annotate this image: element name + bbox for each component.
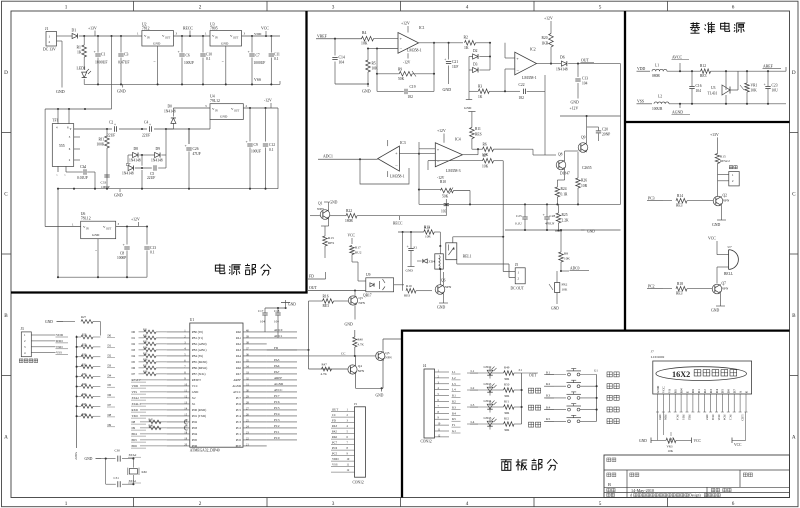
svg-text:D1: D1 [697,389,701,393]
svg-text:NPN: NPN [359,301,366,305]
svg-text:1: 1 [24,333,26,337]
svg-text:OUT: OUT [332,408,338,412]
svg-text:ADC0: ADC0 [274,328,283,332]
svg-text:0.1U: 0.1U [515,222,522,226]
svg-text:NPN: NPN [358,369,365,373]
svg-text:2: 2 [49,40,51,44]
svg-text:3: 3 [332,501,335,507]
svg-text:GND: GND [92,233,100,237]
svg-text:D6: D6 [108,393,112,397]
svg-text:RS: RS [674,389,678,393]
svg-text:C2: C2 [109,121,113,125]
svg-text:D9: D9 [132,426,136,430]
svg-text:CC: CC [341,352,346,356]
svg-text:PB2: PB2 [687,415,691,421]
svg-text:GND: GND [345,323,353,327]
svg-text:D7: D7 [126,163,131,167]
svg-text:K1: K1 [452,394,456,398]
svg-text:1N4148: 1N4148 [556,68,568,72]
svg-text:TXD: TXD [132,414,139,418]
svg-text:GND: GND [153,42,161,46]
svg-text:IN: IN [215,37,218,40]
svg-text:VCC: VCC [192,384,198,388]
svg-text:_: _ [436,157,440,162]
svg-text:104: 104 [582,82,588,86]
svg-text:L2: L2 [471,386,475,390]
svg-text:GND: GND [56,89,65,94]
svg-text:RJ1: RJ1 [99,138,105,142]
svg-text:R42: R42 [82,393,87,396]
svg-text:R44: R44 [82,413,87,416]
svg-text:0.1R: 0.1R [561,193,568,197]
svg-text:4: 4 [466,501,469,507]
svg-text:PC1: PC1 [236,432,242,436]
svg-text:VDD: VDD [637,67,645,71]
svg-text:R8: R8 [564,252,568,256]
svg-text:PC6: PC6 [332,446,338,450]
svg-text:RE3: RE3 [676,204,683,208]
svg-text:D5: D5 [132,360,136,364]
svg-text:100K: 100K [97,143,105,147]
svg-text:PC1: PC1 [729,415,733,421]
svg-text:1000P: 1000P [117,256,126,260]
svg-text:104: 104 [339,61,345,65]
svg-text:Q7: Q7 [722,282,727,286]
svg-text:C3: C3 [124,53,129,57]
svg-text:GND: GND [464,106,472,110]
svg-text:-12V: -12V [264,99,272,103]
svg-text:OUT: OUT [529,374,537,378]
svg-text:100UF: 100UF [184,61,194,65]
svg-text:VDD: VDD [132,384,139,388]
svg-text:30R: 30R [504,394,510,398]
svg-text:PD3: PD3 [192,426,198,430]
svg-text:D3: D3 [709,389,713,393]
svg-text:78L12: 78L12 [81,217,91,221]
svg-text:PC4: PC4 [236,414,242,418]
svg-text:U7: U7 [728,245,732,249]
svg-text:PD4: PD4 [723,415,727,421]
svg-text:D2: D2 [108,354,112,358]
svg-text:VCC: VCC [662,385,666,393]
svg-text:F1: F1 [452,423,456,427]
svg-text:RES: RES [475,133,482,137]
svg-text:R20: R20 [542,36,548,40]
svg-text:K5: K5 [452,417,456,421]
svg-text:L3: L3 [452,382,456,386]
svg-text:C30: C30 [115,449,121,453]
svg-text:PC2: PC2 [274,424,280,428]
svg-text:REL1: REL1 [463,255,472,259]
svg-text:+: + [407,245,409,249]
svg-text:~: ~ [95,249,97,253]
svg-text:Q9: Q9 [581,136,586,140]
svg-text:K4: K4 [452,411,456,415]
svg-text:LED1: LED1 [77,67,86,71]
svg-text:4.7K: 4.7K [358,343,365,347]
svg-text:PC5: PC5 [274,406,280,410]
svg-text:D4: D4 [715,389,719,393]
svg-text:+: + [149,122,151,126]
svg-text:G1: G1 [594,369,598,373]
svg-text:NPN: NPN [445,285,452,289]
svg-text:LED: LED [740,415,744,422]
svg-text:1: 1 [518,271,520,275]
svg-text:J4: J4 [423,364,426,368]
svg-text:PD1 (TXD): PD1 (TXD) [192,414,206,418]
svg-text:GND: GND [376,394,384,398]
svg-text:PD5: PD5 [192,438,198,442]
svg-text:R9: R9 [398,68,402,72]
svg-text:PB3 (AIN1): PB3 (AIN1) [192,348,207,352]
svg-text:10R: 10R [581,184,588,188]
svg-text:K4: K4 [546,405,550,409]
svg-text:TL431: TL431 [708,92,718,96]
svg-text:PC7: PC7 [332,441,338,445]
svg-text:C1: C1 [101,53,106,57]
svg-text:470UF: 470UF [545,222,555,226]
svg-text:1: 1 [65,5,68,11]
svg-text:Q5: Q5 [385,351,389,355]
svg-text:LED2: LED2 [484,365,492,369]
svg-text:IC3: IC3 [400,141,406,145]
svg-text:+12V: +12V [131,218,140,222]
svg-text:VDD: VDD [254,32,262,36]
svg-text:GND: GND [330,201,338,205]
svg-text:C9: C9 [254,143,258,147]
svg-text:AVCC: AVCC [233,390,241,394]
svg-text:FR2: FR2 [562,283,568,287]
svg-text:1N4148: 1N4148 [164,110,176,114]
svg-text:D8: D8 [108,413,112,417]
svg-text:~: ~ [222,60,224,64]
svg-text:Q2: Q2 [723,194,728,198]
svg-text:R27: R27 [81,315,87,319]
svg-text:PC7: PC7 [274,394,280,398]
svg-text:IC2: IC2 [530,48,536,52]
svg-text:PD0 (RXD): PD0 (RXD) [192,408,206,412]
svg-text:1: 1 [137,32,139,36]
svg-text:C11: C11 [274,53,280,57]
svg-text:20NP: 20NP [602,133,610,137]
svg-text:Q8: Q8 [558,153,563,157]
svg-text:J7: J7 [651,350,654,354]
svg-text:PA3: PA3 [236,348,242,352]
svg-text:RES2.2: RES2.2 [720,159,730,163]
svg-text:OUT: OUT [233,37,239,40]
svg-text:7: 7 [347,442,349,445]
svg-text:D6: D6 [727,389,731,393]
svg-text:DC 13V: DC 13V [43,48,56,52]
svg-text:PA6: PA6 [236,366,242,370]
svg-text:C6: C6 [186,54,190,58]
svg-text:DC OUT: DC OUT [511,287,525,291]
svg-text:D1: D1 [108,344,112,348]
svg-text:+: + [764,83,766,87]
svg-text:Q1: Q1 [318,202,323,206]
svg-text:R28: R28 [82,334,87,337]
svg-text:LM358-1: LM358-1 [407,49,422,53]
svg-text:RU2: RU2 [355,251,362,255]
svg-text:~: ~ [56,173,58,177]
svg-text:PD2: PD2 [192,420,198,424]
svg-text:PA2: PA2 [236,342,242,346]
svg-text:Q3: Q3 [359,296,363,300]
svg-text:GND: GND [443,87,452,92]
svg-text:RE3: RE3 [323,304,330,308]
svg-text:R5: R5 [372,62,376,66]
svg-text:AGND: AGND [672,111,683,115]
svg-text:G1: G1 [452,429,456,433]
svg-text:XTA2: XTA2 [132,396,140,400]
svg-text:GND: GND [639,439,647,443]
svg-text:R11: R11 [475,127,481,131]
svg-text:d: d [630,494,632,498]
svg-text:GND: GND [571,101,579,105]
svg-text:1N4148: 1N4148 [129,159,141,163]
svg-text:0.1: 0.1 [150,251,155,255]
svg-text:GND: GND [711,309,719,313]
svg-text:10K: 10K [482,165,489,169]
svg-text:RES: RES [328,241,334,245]
svg-text:VSS: VSS [132,390,138,394]
svg-text:L4: L4 [452,388,456,392]
svg-text:D8: D8 [134,147,139,151]
svg-text:D7: D7 [733,389,737,393]
svg-text:J5: J5 [515,263,518,267]
svg-text:GND: GND [220,115,228,119]
svg-text:1: 1 [732,173,734,177]
svg-text:R6: R6 [483,143,487,147]
svg-text:R14: R14 [677,194,683,198]
svg-text:NPN: NPN [723,199,730,203]
svg-text:4: 4 [466,5,469,11]
svg-text:R26: R26 [581,179,587,183]
svg-text:PD4: PD4 [132,432,138,436]
svg-text:GND: GND [551,307,559,311]
svg-text:AREF: AREF [274,376,282,380]
svg-text:C23: C23 [772,84,778,88]
svg-text:R29: R29 [82,344,87,347]
svg-text:C25: C25 [516,214,522,218]
svg-text:1000P: 1000P [101,185,110,189]
svg-text:C2655: C2655 [582,166,592,170]
svg-text:2: 2 [518,277,520,281]
svg-text:GND: GND [114,193,123,198]
svg-text:R17: R17 [355,246,361,250]
svg-text:R31: R31 [143,329,148,332]
svg-text:VCC: VCC [348,234,356,238]
svg-text:K3: K3 [546,394,550,398]
svg-text:D: D [792,70,796,76]
svg-text:RE3: RE3 [676,292,683,296]
svg-text:K2: K2 [452,400,456,404]
svg-text:X2: X2 [192,396,196,400]
svg-text:2: 2 [199,501,202,507]
svg-text:2: 2 [199,5,202,11]
svg-text:L2: L2 [452,376,456,380]
svg-text:PB6: PB6 [664,415,668,421]
svg-text:3: 3 [24,345,26,349]
svg-text:7805: 7805 [210,27,218,31]
svg-text:2.2K: 2.2K [562,219,569,223]
svg-text:LED4: LED4 [484,399,492,403]
svg-text:VSS: VSS [56,351,62,355]
svg-text:R37: R37 [143,365,148,368]
svg-text:PC0: PC0 [236,438,242,442]
svg-text:C26: C26 [193,147,199,151]
svg-text:R30: R30 [82,353,87,356]
svg-text:AVCC: AVCC [274,388,282,392]
svg-text:104: 104 [260,320,265,324]
svg-text:R4: R4 [362,31,367,35]
svg-text:D3: D3 [132,348,136,352]
svg-text:+: + [114,122,116,126]
svg-text:AGND: AGND [232,384,241,388]
svg-text:V0: V0 [668,389,672,393]
svg-text:PC6: PC6 [236,402,242,406]
svg-text:C31: C31 [114,476,120,480]
svg-text:B: B [608,482,611,487]
svg-text:VDD: VDD [332,457,339,461]
svg-text:0.47UF: 0.47UF [118,61,130,65]
svg-text:D1: D1 [132,336,136,340]
svg-text:1K: 1K [464,46,469,50]
svg-text:E1: E1 [414,246,418,250]
svg-text:22UF: 22UF [142,134,150,138]
svg-text:PC0: PC0 [274,436,280,440]
svg-text:PA5: PA5 [236,360,242,364]
svg-text:LM358-3: LM358-3 [446,169,461,173]
svg-text:+12V: +12V [544,17,553,21]
svg-text:+12V: +12V [570,107,579,111]
svg-text:IC4: IC4 [455,138,461,142]
svg-text:+: + [516,56,519,61]
svg-text:K1: K1 [546,370,550,374]
svg-text:PD6: PD6 [132,444,138,448]
svg-text:RJ1: RJ1 [504,399,509,403]
svg-text:IN: IN [147,37,150,40]
svg-text:1N4148: 1N4148 [122,172,134,176]
svg-text:R22: R22 [346,209,352,213]
svg-text:PB1 (T1): PB1 (T1) [192,336,203,340]
svg-text:OUT: OUT [106,228,112,231]
svg-text:C: C [4,192,8,198]
svg-text:GND: GND [192,390,199,394]
svg-text:PB4 (SS): PB4 (SS) [192,354,203,358]
svg-text:1UF: 1UF [452,65,458,69]
svg-text:PA7: PA7 [274,370,280,374]
svg-text:GND: GND [437,306,445,310]
svg-text:C13: C13 [150,246,156,250]
svg-text:1800UF: 1800UF [95,61,107,65]
svg-text:RE3: RE3 [700,74,707,78]
svg-text:3: 3 [205,104,207,108]
svg-text:OUT: OUT [309,286,317,290]
svg-text:_: _ [399,45,403,50]
svg-text:PD3: PD3 [717,415,721,421]
svg-text:10K: 10K [562,288,568,292]
svg-text:+: + [437,147,440,152]
svg-text:A: A [792,435,796,441]
svg-text:PA3: PA3 [274,358,280,362]
svg-text:22UF: 22UF [107,134,115,138]
svg-text:4: 4 [24,351,26,355]
svg-text:182: 182 [519,96,525,100]
svg-text:VSS: VSS [332,463,338,467]
svg-text:VCC: VCC [261,27,269,31]
svg-text:C22: C22 [519,83,525,87]
svg-text:PB1: PB1 [681,415,685,421]
svg-text:PC4: PC4 [274,412,280,416]
svg-text:AREF: AREF [233,378,241,382]
svg-text:16X2: 16X2 [672,370,690,379]
svg-text:L2: L2 [658,95,662,99]
svg-text:2: 2 [732,179,734,183]
svg-text:PC7: PC7 [236,396,242,400]
svg-text:IC1: IC1 [419,26,425,30]
svg-text:+12V: +12V [401,22,410,26]
svg-text:VDD: VDD [56,333,64,337]
svg-text:+13V: +13V [88,27,97,31]
svg-text:U1: U1 [190,318,195,322]
svg-text:ADC1: ADC1 [323,155,333,159]
svg-text:A: A [4,435,8,441]
svg-text:2: 2 [347,414,349,417]
svg-text:10U: 10U [772,89,779,93]
svg-text:J1: J1 [45,27,48,31]
svg-text:FD: FD [274,346,279,350]
svg-text:PB7: PB7 [705,415,709,421]
svg-text:VR3: VR3 [667,445,673,449]
svg-text:C28: C28 [550,214,556,218]
svg-text:4.7K: 4.7K [321,372,328,376]
svg-text:GND: GND [221,42,229,46]
svg-text:C19: C19 [410,85,416,89]
svg-text:VSS: VSS [254,78,261,82]
svg-text:R49: R49 [504,365,510,369]
svg-text:080R: 080R [652,74,660,78]
svg-text:R46: R46 [149,425,154,428]
svg-text:PD4: PD4 [192,432,198,436]
svg-text:PC6: PC6 [274,400,280,404]
svg-text:RES: RES [404,294,410,298]
svg-text:R32: R32 [82,373,87,376]
svg-text:0.01UF: 0.01UF [77,176,88,180]
svg-text:12: 12 [347,469,350,472]
svg-text:C: C [792,192,796,198]
svg-text:D4: D4 [132,354,136,358]
svg-text:RECC: RECC [183,27,193,31]
svg-text:OUT: OUT [581,59,589,63]
svg-text:ZD4: ZD4 [429,260,436,264]
svg-text:D7: D7 [108,403,112,407]
svg-text:R33: R33 [143,341,148,344]
svg-text:1: 1 [205,32,207,36]
svg-text:14-May-2010: 14-May-2010 [631,488,654,493]
svg-text:3: 3 [69,135,71,139]
svg-text:-12V: -12V [403,61,411,65]
svg-text:XTA1: XTA1 [129,479,137,483]
svg-text:10K: 10K [751,89,758,93]
svg-text:KM: KM [142,470,147,474]
svg-text:PC2: PC2 [648,285,655,289]
svg-text:_: _ [516,66,520,71]
svg-text:U9: U9 [366,273,371,277]
svg-text:RESET: RESET [192,378,201,382]
svg-text:D1847: D1847 [560,172,570,176]
svg-text:CC: CC [332,413,336,417]
